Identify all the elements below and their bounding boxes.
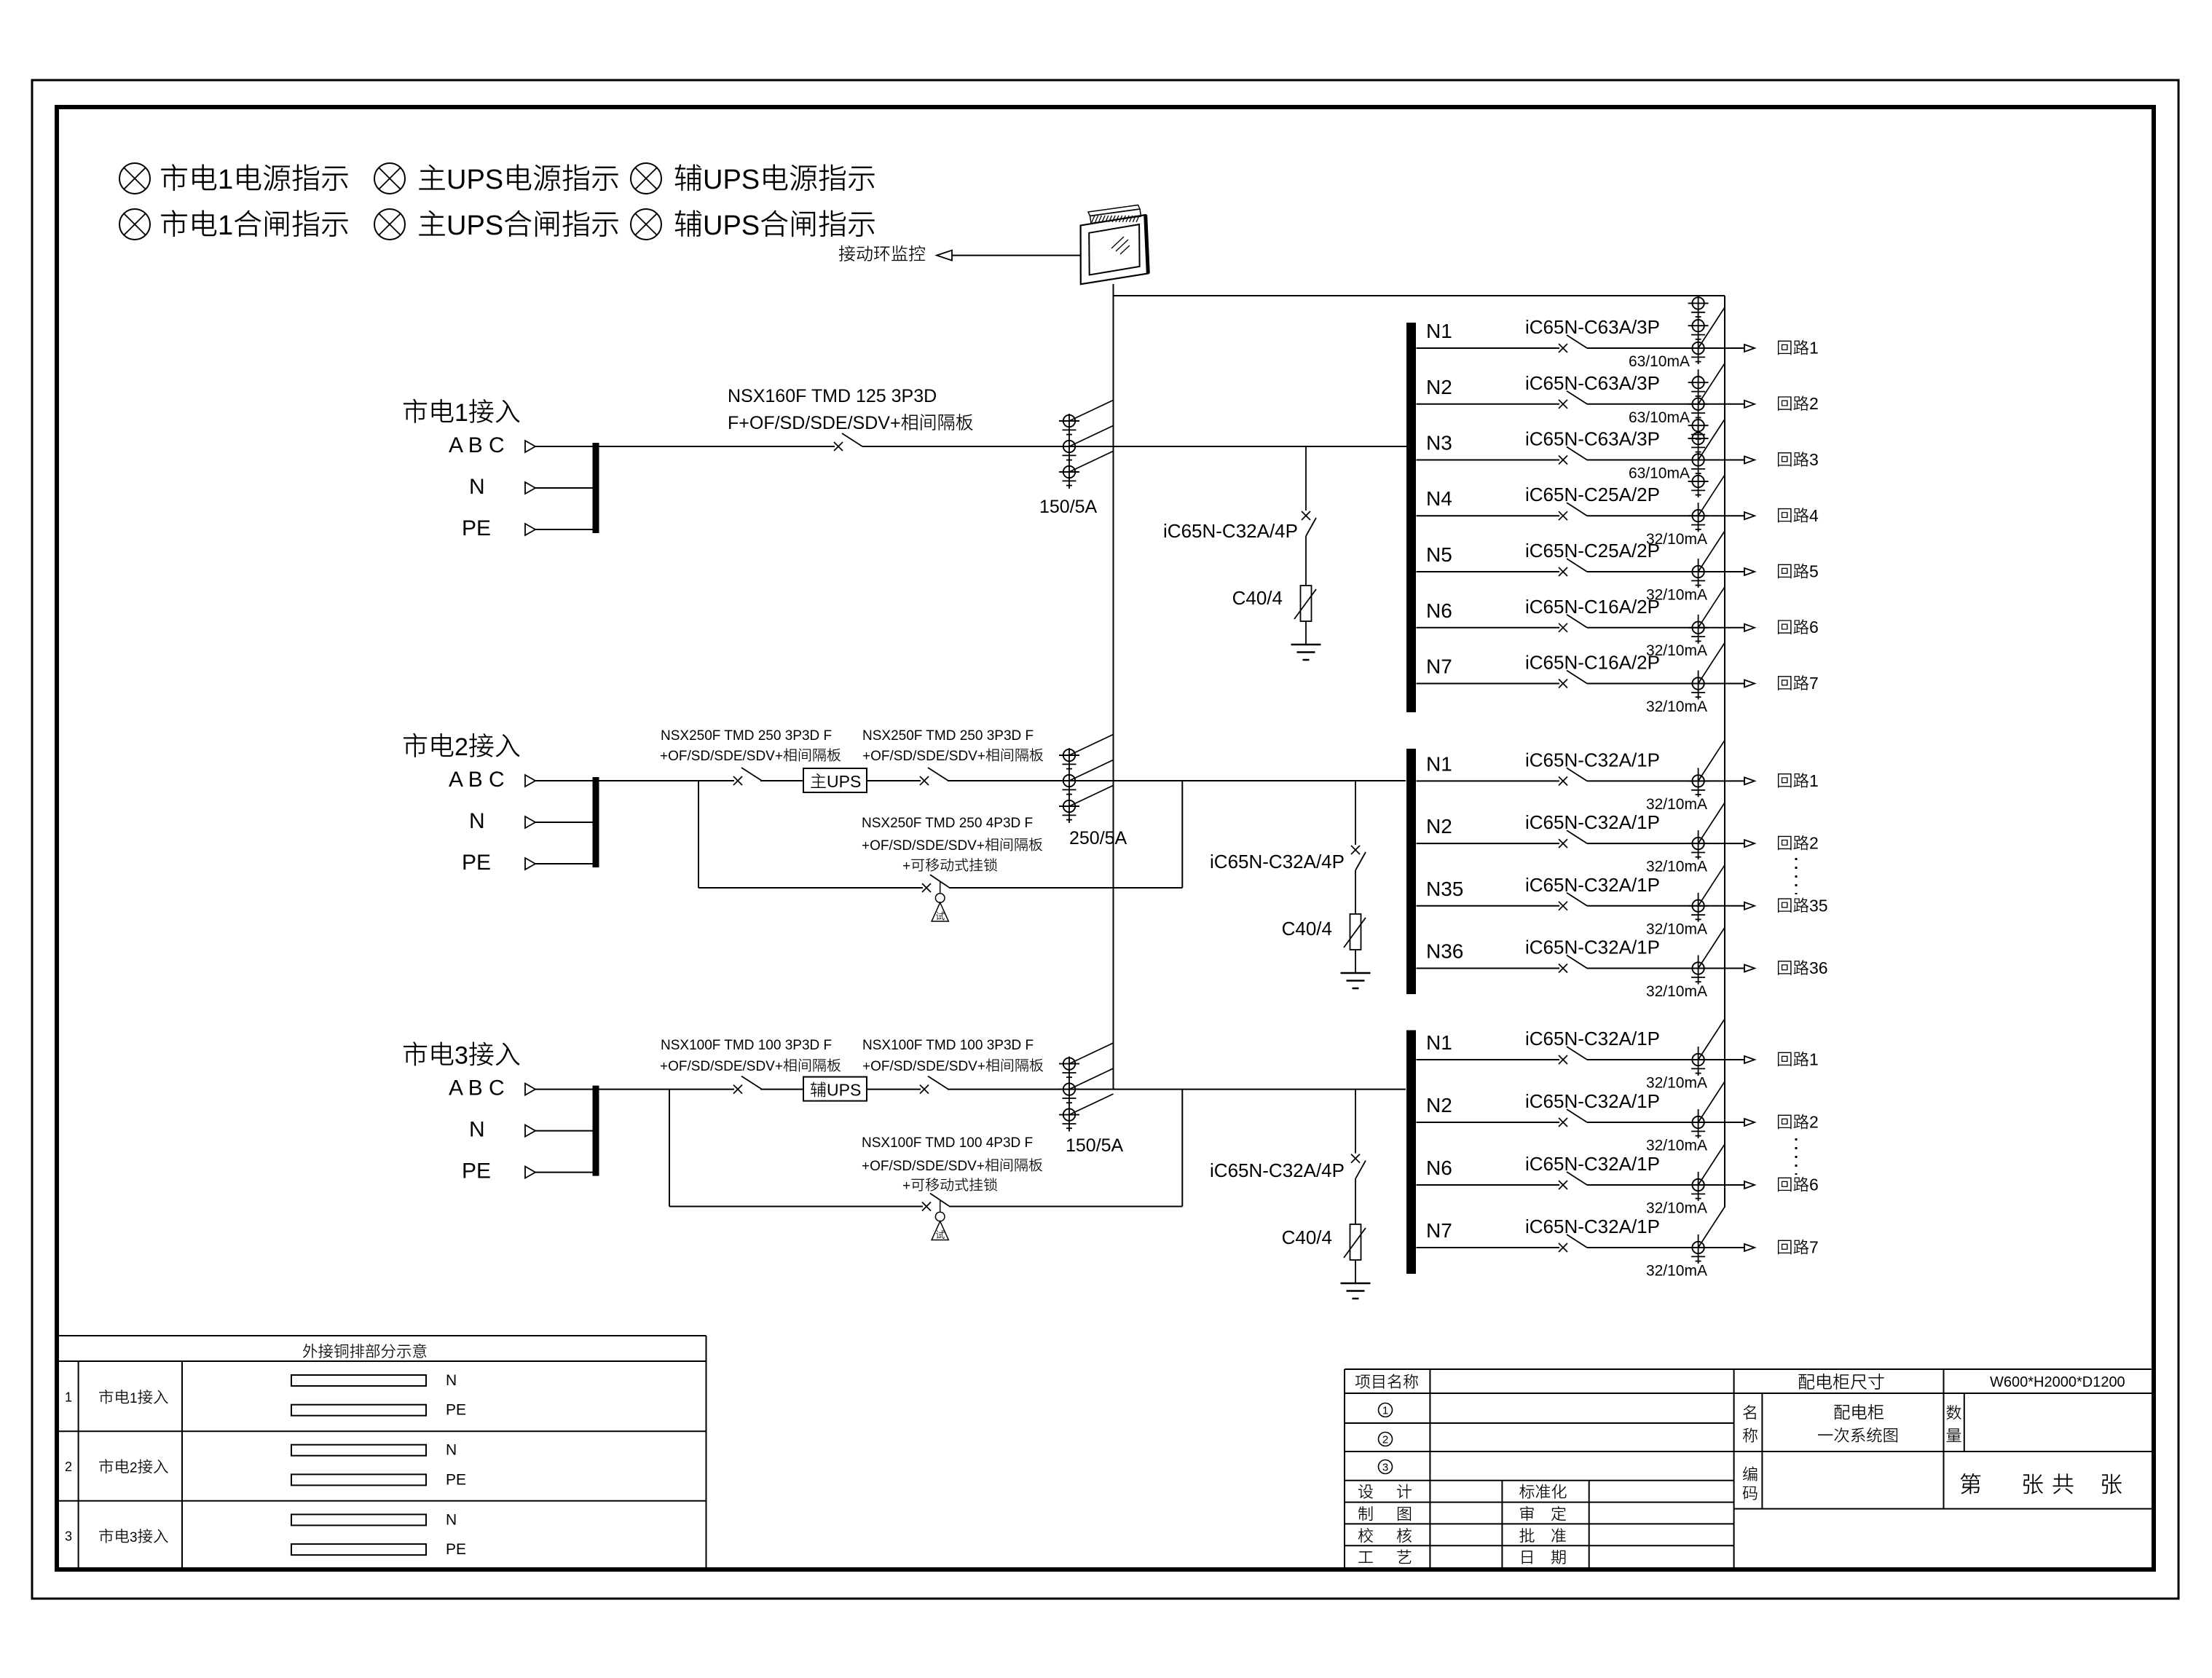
svg-text:3: 3 bbox=[65, 1529, 72, 1544]
label 审 定 bbox=[1520, 1506, 1566, 1521]
svg-text:6: 6 bbox=[1809, 618, 1819, 637]
wire bypass3 down from feeder bbox=[669, 1090, 670, 1207]
svg-text:PE: PE bbox=[462, 851, 491, 875]
breaker N35 iC65N-C32A/1P bbox=[1559, 893, 1587, 910]
svg-text:3: 3 bbox=[1809, 450, 1819, 469]
output arrow 回路35 bbox=[1744, 902, 1755, 910]
residual current transformer N2 bbox=[1688, 369, 1709, 441]
trip linkage diagonal N4 bbox=[1699, 475, 1725, 516]
breaker QF2a NSX250F bbox=[733, 768, 762, 785]
label iC65N-C32A/1P bbox=[1525, 749, 1660, 771]
label +OF/SD/SDE/SDV+相间隔板 (QF3a) bbox=[660, 1058, 841, 1074]
svg-text:N: N bbox=[469, 475, 485, 499]
svg-text:N: N bbox=[446, 1372, 457, 1389]
trip linkage diagonal N7 bbox=[1699, 1207, 1725, 1248]
label iC65N-C32A/1P bbox=[1525, 874, 1660, 896]
svg-text:iC65N-C32A/1P: iC65N-C32A/1P bbox=[1525, 937, 1660, 958]
label 制 图 bbox=[1358, 1506, 1411, 1521]
label 32/10mA bbox=[1646, 859, 1707, 875]
label NSX250F TMD 250 3P3D F (QF2a) bbox=[661, 728, 832, 744]
breaker QF3c bypass NSX100F 4P bbox=[922, 1194, 949, 1211]
svg-text:32/10mA: 32/10mA bbox=[1646, 859, 1707, 875]
label iC65N-C32A/1P bbox=[1525, 811, 1660, 833]
residual current transformer N1 bbox=[1688, 1047, 1709, 1076]
breaker QF2b NSX250F bbox=[920, 768, 948, 785]
label circled 3 bbox=[1379, 1460, 1393, 1474]
residual current transformer N6 bbox=[1688, 1172, 1709, 1201]
svg-text:iC65N-C32A/1P: iC65N-C32A/1P bbox=[1525, 1153, 1660, 1175]
input arrow PE bbox=[525, 524, 593, 535]
svg-text:A B C: A B C bbox=[449, 433, 505, 457]
residual current transformer N36 bbox=[1688, 956, 1709, 985]
node N5 bbox=[1426, 543, 1452, 566]
wire feeder2 to breaker QF2a bbox=[599, 780, 734, 781]
label 辅UPS电源指示 bbox=[675, 165, 875, 195]
breaker N5 iC65N-C25A/2P bbox=[1559, 559, 1587, 576]
wire N7 to output bbox=[1587, 1247, 1744, 1248]
svg-text:W600*H2000*D1200: W600*H2000*D1200 bbox=[1990, 1374, 2125, 1390]
svg-text:1: 1 bbox=[130, 1391, 138, 1406]
label 数量 vertical bbox=[1946, 1405, 1961, 1442]
svg-text:63/10mA: 63/10mA bbox=[1629, 409, 1690, 426]
trip linkage diagonal N1 bbox=[1699, 307, 1725, 348]
svg-text:+OF/SD/SDE/SDV+: +OF/SD/SDE/SDV+ bbox=[660, 749, 783, 764]
svg-text:+OF/SD/SDE/SDV+: +OF/SD/SDE/SDV+ bbox=[862, 838, 985, 854]
svg-text:PE: PE bbox=[446, 1541, 466, 1558]
svg-text:iC65N-C16A/2P: iC65N-C16A/2P bbox=[1525, 596, 1660, 618]
output arrow 回路7 bbox=[1744, 1244, 1755, 1251]
wire N1 to output bbox=[1587, 780, 1744, 781]
svg-text:1: 1 bbox=[454, 399, 468, 427]
wire to 辅UPS box bbox=[760, 1089, 803, 1090]
svg-text:PE: PE bbox=[446, 1471, 466, 1488]
svg-text:150/5A: 150/5A bbox=[1039, 497, 1098, 517]
wire bypass3 horizontal bbox=[669, 1206, 923, 1208]
svg-text:32/10mA: 32/10mA bbox=[1646, 1075, 1707, 1092]
breaker N36 iC65N-C32A/1P bbox=[1559, 956, 1587, 973]
monitor (touch screen) icon bbox=[1081, 205, 1149, 285]
svg-text:iC65N-C63A/3P: iC65N-C63A/3P bbox=[1525, 316, 1660, 338]
label +可移动式挂锁 (bypass) bbox=[902, 858, 997, 874]
copper bar N row 2 bbox=[291, 1442, 457, 1459]
output arrow 回路1 bbox=[1744, 777, 1755, 784]
surge breaker iC65N-C32A/4P bbox=[1351, 1090, 1366, 1224]
breaker N1 iC65N-C63A/3P bbox=[1559, 335, 1587, 352]
label 回路4 bbox=[1778, 506, 1819, 525]
residual current transformer N1 bbox=[1688, 296, 1709, 365]
table header 外接铜排部分示意 bbox=[303, 1344, 427, 1358]
label NSX100F TMD 100 3P3D F (QF3a) bbox=[661, 1038, 832, 1053]
wire bypass3 riser to feeder wire bbox=[1181, 1090, 1183, 1207]
svg-text:N: N bbox=[469, 1118, 485, 1142]
label 名称 vertical bbox=[1743, 1405, 1758, 1443]
label iC65N-C32A/1P bbox=[1525, 937, 1660, 958]
wire N6 to output bbox=[1587, 627, 1744, 629]
label 250/5A bbox=[1069, 828, 1127, 848]
wire bypass3 to riser bbox=[949, 1206, 1182, 1208]
label iC65N-C25A/2P bbox=[1525, 484, 1660, 505]
breaker N3 iC65N-C63A/3P bbox=[1559, 447, 1587, 465]
output arrow 回路5 bbox=[1744, 568, 1755, 575]
label 回路2 bbox=[1778, 394, 1819, 413]
label +OF/SD/SDE/SDV+相间隔板 (QF2a) bbox=[660, 748, 841, 764]
node N7 bbox=[1426, 1219, 1452, 1242]
svg-text:2: 2 bbox=[65, 1460, 72, 1474]
svg-text:N7: N7 bbox=[1426, 655, 1452, 678]
label N bbox=[469, 475, 485, 499]
node N6 bbox=[1426, 599, 1452, 622]
label W600*H2000*D1200 bbox=[1990, 1374, 2125, 1390]
label NSX160F TMD 125 3P3D bbox=[728, 386, 937, 406]
current transformer 150/5A bbox=[1059, 400, 1114, 489]
label 32/10mA bbox=[1646, 796, 1707, 813]
label +OF/SD/SDE/SDV+相间隔板 (QF2b) bbox=[862, 748, 1043, 764]
wire branch N3 from busbar bbox=[1417, 460, 1560, 461]
surge arrester varistor C40/4 bbox=[1294, 586, 1316, 645]
breaker QF2c bypass NSX250F 4P bbox=[922, 875, 949, 892]
svg-text:2: 2 bbox=[130, 1461, 138, 1476]
svg-text:N4: N4 bbox=[1426, 487, 1452, 510]
wire branch N5 from busbar bbox=[1417, 571, 1560, 572]
residual current transformer N5 bbox=[1688, 559, 1709, 588]
label 63/10mA bbox=[1629, 353, 1690, 370]
svg-text:N5: N5 bbox=[1426, 543, 1452, 566]
wire right collector bus bbox=[1724, 296, 1725, 1208]
svg-text:1: 1 bbox=[218, 210, 233, 241]
input arrow phase A B C bbox=[525, 441, 593, 452]
svg-text:UPS: UPS bbox=[827, 772, 861, 791]
breaker QF1 NSX160F bbox=[834, 433, 862, 451]
label 工 艺 bbox=[1358, 1550, 1411, 1564]
svg-text:UPS: UPS bbox=[446, 210, 503, 241]
wire branch N36 from busbar bbox=[1417, 968, 1560, 969]
wire top distribution line bbox=[1114, 295, 1725, 296]
wire to 主UPS box bbox=[760, 780, 803, 781]
svg-text:C40/4: C40/4 bbox=[1282, 1226, 1332, 1248]
svg-text:NSX100F TMD 100 3P3D F: NSX100F TMD 100 3P3D F bbox=[862, 1038, 1034, 1053]
wire bypass2 riser to feeder wire bbox=[1181, 781, 1183, 888]
breaker N7 iC65N-C16A/2P bbox=[1559, 671, 1587, 688]
output arrow 回路2 bbox=[1744, 401, 1755, 408]
input arrow N bbox=[525, 816, 593, 828]
label 63/10mA bbox=[1629, 409, 1690, 426]
label 编码 vertical bbox=[1743, 1466, 1758, 1500]
label 设 计 bbox=[1358, 1484, 1412, 1499]
label 主UPS合闸指示 bbox=[419, 210, 618, 241]
residual current transformer N2 bbox=[1688, 830, 1709, 859]
busbar group3 (aux UPS) bbox=[1406, 1031, 1416, 1275]
ground symbol bbox=[1341, 1283, 1371, 1299]
output arrow 回路4 bbox=[1744, 512, 1755, 519]
svg-text:UPS: UPS bbox=[703, 210, 760, 241]
indicator lamp HL1 bbox=[119, 163, 150, 194]
svg-text:N1: N1 bbox=[1426, 752, 1452, 775]
label 32/10mA bbox=[1646, 1138, 1707, 1154]
node N2 bbox=[1426, 376, 1452, 398]
wire bypass2 horizontal bbox=[698, 887, 923, 889]
svg-text:PE: PE bbox=[462, 516, 491, 540]
label 回路2 bbox=[1778, 834, 1819, 853]
label 回路1 bbox=[1778, 339, 1819, 358]
svg-text:2: 2 bbox=[454, 733, 468, 761]
label C40/4 bbox=[1282, 1226, 1332, 1248]
trip linkage diagonal N7 bbox=[1699, 643, 1725, 684]
residual current transformer N6 bbox=[1688, 615, 1709, 644]
svg-text:NSX160F TMD 125 3P3D: NSX160F TMD 125 3P3D bbox=[728, 386, 937, 406]
breaker N4 iC65N-C25A/2P bbox=[1559, 503, 1587, 520]
wire branch N6 from busbar bbox=[1417, 1184, 1560, 1186]
node N1 bbox=[1426, 752, 1452, 775]
label iC65N-C63A/3P bbox=[1525, 372, 1660, 394]
svg-text:32/10mA: 32/10mA bbox=[1646, 1263, 1707, 1280]
trip linkage diagonal N6 bbox=[1699, 587, 1725, 628]
indicator lamp HL2 bbox=[374, 163, 405, 194]
label 32/10mA bbox=[1646, 1200, 1707, 1217]
label A B C phases bbox=[449, 1076, 505, 1100]
svg-text:iC65N-C25A/2P: iC65N-C25A/2P bbox=[1525, 484, 1660, 505]
breaker QF3b NSX100F bbox=[920, 1076, 948, 1094]
trip linkage diagonal N1 bbox=[1699, 1019, 1725, 1060]
label circled 2 bbox=[1379, 1433, 1393, 1446]
copper bar PE row 1 bbox=[291, 1402, 466, 1419]
svg-text:iC65N-C32A/1P: iC65N-C32A/1P bbox=[1525, 749, 1660, 771]
wire branch N35 from busbar bbox=[1417, 905, 1560, 907]
node N6 bbox=[1426, 1157, 1452, 1179]
svg-text:NSX100F TMD 100 3P3D F: NSX100F TMD 100 3P3D F bbox=[661, 1038, 832, 1053]
svg-text:iC65N-C63A/3P: iC65N-C63A/3P bbox=[1525, 372, 1660, 394]
wire feeder3 to breaker QF3a bbox=[599, 1089, 734, 1090]
label PE bbox=[462, 851, 491, 875]
主UPS box bbox=[803, 768, 867, 792]
svg-text:2: 2 bbox=[1809, 394, 1819, 413]
surge arrester varistor C40/4 bbox=[1344, 914, 1366, 973]
table 外接铜排部分示意 frame bbox=[59, 1336, 706, 1567]
label 回路36 bbox=[1778, 958, 1828, 977]
copper bar N row 1 bbox=[291, 1372, 457, 1389]
label 市电1电源指示 bbox=[161, 164, 348, 195]
svg-text:7: 7 bbox=[1809, 674, 1819, 693]
svg-text:1: 1 bbox=[65, 1390, 72, 1405]
label 主UPS电源指示 bbox=[419, 165, 618, 195]
label iC65N-C63A/3P bbox=[1525, 428, 1660, 450]
label NSX100F TMD 100 3P3D F (QF3b) bbox=[862, 1038, 1034, 1053]
svg-text:1: 1 bbox=[1809, 1050, 1819, 1069]
label 63/10mA bbox=[1629, 465, 1690, 482]
svg-text:UPS: UPS bbox=[827, 1081, 861, 1100]
label 回路7 bbox=[1778, 674, 1819, 693]
svg-text:3: 3 bbox=[454, 1042, 468, 1070]
output arrow 回路6 bbox=[1744, 624, 1755, 631]
busbar group1 (market power 1) bbox=[1406, 323, 1416, 712]
input arrow PE bbox=[525, 1167, 593, 1178]
svg-text:F+OF/SD/SDE/SDV+: F+OF/SD/SDE/SDV+ bbox=[728, 413, 901, 433]
indicator lamp HL5 bbox=[374, 209, 405, 240]
svg-text:32/10mA: 32/10mA bbox=[1646, 921, 1707, 937]
residual current transformer N1 bbox=[1688, 768, 1709, 797]
svg-text:NSX250F TMD 250 4P3D F: NSX250F TMD 250 4P3D F bbox=[862, 816, 1033, 831]
svg-text:N1: N1 bbox=[1426, 1031, 1452, 1054]
svg-text:7: 7 bbox=[1809, 1238, 1819, 1257]
label +OF/SD/SDE/SDV+相间隔板 (bypass3) bbox=[862, 1158, 1042, 1174]
breaker QF3a NSX100F bbox=[733, 1076, 762, 1094]
trip linkage diagonal N2 bbox=[1699, 1082, 1725, 1122]
svg-text:iC65N-C32A/1P: iC65N-C32A/1P bbox=[1525, 1090, 1660, 1112]
residual current transformer N7 bbox=[1688, 671, 1709, 700]
node N35 bbox=[1426, 878, 1463, 900]
svg-text:1: 1 bbox=[218, 165, 233, 195]
svg-text:PE: PE bbox=[446, 1402, 466, 1419]
title block frame bbox=[1345, 1369, 2154, 1567]
feeder title 市电3接入 bbox=[404, 1041, 519, 1069]
label A B C phases bbox=[449, 433, 505, 457]
svg-text:N: N bbox=[446, 1442, 457, 1459]
trip linkage diagonal N6 bbox=[1699, 1144, 1725, 1185]
ground symbol bbox=[1341, 973, 1371, 988]
output arrow 回路36 bbox=[1744, 965, 1755, 972]
svg-text:32/10mA: 32/10mA bbox=[1646, 796, 1707, 813]
svg-text:2: 2 bbox=[1382, 1434, 1388, 1446]
trip linkage diagonal N36 bbox=[1699, 928, 1725, 969]
label 回路6 bbox=[1778, 1175, 1819, 1194]
svg-text:NSX250F TMD 250 3P3D F: NSX250F TMD 250 3P3D F bbox=[661, 728, 832, 744]
label 32/10mA bbox=[1646, 983, 1707, 1000]
svg-text:NSX100F TMD 100 4P3D F: NSX100F TMD 100 4P3D F bbox=[862, 1135, 1033, 1151]
output arrow 回路6 bbox=[1744, 1181, 1755, 1189]
svg-text:UPS: UPS bbox=[703, 165, 760, 195]
label iC65N-C16A/2P bbox=[1525, 652, 1660, 674]
label 日 期 bbox=[1522, 1550, 1566, 1564]
label iC65N-C32A/4P bbox=[1210, 1159, 1345, 1181]
svg-text:32/10mA: 32/10mA bbox=[1646, 1138, 1707, 1154]
svg-text:+OF/SD/SDE/SDV+: +OF/SD/SDE/SDV+ bbox=[862, 749, 985, 764]
svg-text:C40/4: C40/4 bbox=[1232, 587, 1283, 609]
breaker N7 iC65N-C32A/1P bbox=[1559, 1234, 1587, 1252]
wire branch N7 from busbar bbox=[1417, 683, 1560, 685]
svg-text:iC65N-C16A/2P: iC65N-C16A/2P bbox=[1525, 652, 1660, 674]
output arrow 回路1 bbox=[1744, 1056, 1755, 1063]
label iC65N-C32A/4P bbox=[1210, 851, 1345, 873]
svg-text:iC65N-C25A/2P: iC65N-C25A/2P bbox=[1525, 540, 1660, 562]
label 回路1 bbox=[1778, 1050, 1819, 1069]
wire N5 to output bbox=[1587, 571, 1744, 572]
辅UPS box bbox=[803, 1077, 867, 1101]
indicator lamp HL4 bbox=[119, 209, 150, 240]
wire bypass2 down from feeder bbox=[698, 781, 699, 888]
trip linkage diagonal N2 bbox=[1699, 363, 1725, 404]
wire N7 to output bbox=[1587, 683, 1744, 685]
svg-text:250/5A: 250/5A bbox=[1069, 828, 1127, 848]
svg-text:2: 2 bbox=[1809, 1113, 1819, 1132]
padlock (removable) bypass3 bbox=[932, 1200, 948, 1240]
label 32/10mA bbox=[1646, 921, 1707, 937]
svg-text:iC65N-C32A/4P: iC65N-C32A/4P bbox=[1210, 851, 1345, 873]
label 批 准 bbox=[1519, 1528, 1566, 1543]
label 接动环监控 bbox=[839, 245, 925, 261]
svg-text:150/5A: 150/5A bbox=[1066, 1135, 1124, 1156]
label iC65N-C25A/2P bbox=[1525, 540, 1660, 562]
label 32/10mA bbox=[1646, 587, 1707, 604]
wire branch N2 from busbar bbox=[1417, 1122, 1560, 1123]
svg-text:iC65N-C32A/1P: iC65N-C32A/1P bbox=[1525, 874, 1660, 896]
trip linkage diagonal N1 bbox=[1699, 740, 1725, 781]
svg-text:UPS: UPS bbox=[446, 165, 503, 195]
padlock (removable) bypass2 bbox=[932, 882, 948, 922]
label C40/4 bbox=[1282, 918, 1332, 940]
feeder title 市电2接入 bbox=[404, 733, 519, 761]
label 标准化 bbox=[1519, 1484, 1567, 1499]
node N1 bbox=[1426, 320, 1452, 342]
svg-text:1: 1 bbox=[1382, 1405, 1388, 1417]
wire N6 to output bbox=[1587, 1184, 1744, 1186]
ground symbol bbox=[1291, 645, 1321, 660]
output arrow 回路2 bbox=[1744, 840, 1755, 847]
svg-text:2: 2 bbox=[1809, 834, 1819, 853]
svg-text:N2: N2 bbox=[1426, 1094, 1452, 1116]
svg-text:+: + bbox=[902, 859, 910, 874]
label iC65N-C63A/3P bbox=[1525, 316, 1660, 338]
wire feeder1 to breaker bbox=[599, 446, 835, 447]
wire feeder1 breaker to busbar bbox=[862, 446, 1406, 447]
feeder terminal busbar bbox=[593, 777, 599, 867]
label 回路3 bbox=[1778, 450, 1819, 469]
svg-text:iC65N-C63A/3P: iC65N-C63A/3P bbox=[1525, 428, 1660, 450]
label 150/5A bbox=[1039, 497, 1098, 517]
label 回路7 bbox=[1778, 1238, 1819, 1257]
label 回路1 bbox=[1778, 771, 1819, 790]
label 一次系统图 bbox=[1818, 1427, 1897, 1443]
label NSX100F TMD 100 4P3D F (bypass3) bbox=[862, 1135, 1033, 1151]
wire feeder2 breaker to busbar bbox=[948, 780, 1406, 781]
svg-text:1: 1 bbox=[1809, 771, 1819, 790]
svg-text:63/10mA: 63/10mA bbox=[1629, 353, 1690, 370]
svg-text:NSX250F TMD 250 3P3D F: NSX250F TMD 250 3P3D F bbox=[862, 728, 1034, 744]
label iC65N-C32A/1P bbox=[1525, 1216, 1660, 1237]
node N36 bbox=[1426, 940, 1463, 963]
svg-text:+: + bbox=[902, 1178, 910, 1194]
svg-text:32/10mA: 32/10mA bbox=[1646, 983, 1707, 1000]
label circled 1 bbox=[1379, 1403, 1393, 1417]
label 150/5A bbox=[1066, 1135, 1124, 1156]
node N2 bbox=[1426, 815, 1452, 838]
table row 2 label bbox=[65, 1459, 168, 1476]
trip linkage diagonal N3 bbox=[1699, 419, 1725, 460]
input arrow phase A B C bbox=[525, 1084, 593, 1095]
label 校 核 bbox=[1358, 1528, 1412, 1543]
label 第 张 共 张 bbox=[1961, 1473, 2122, 1494]
svg-text:1: 1 bbox=[1809, 339, 1819, 358]
label 32/10mA bbox=[1646, 1075, 1707, 1092]
label 辅UPS合闸指示 bbox=[675, 210, 875, 241]
trip linkage diagonal N2 bbox=[1699, 803, 1725, 843]
svg-text:N1: N1 bbox=[1426, 320, 1452, 342]
input arrow PE bbox=[525, 858, 593, 870]
label 项目名称 bbox=[1355, 1374, 1418, 1389]
breaker N6 iC65N-C32A/1P bbox=[1559, 1172, 1587, 1189]
wire branch N7 from busbar bbox=[1417, 1247, 1560, 1248]
wire N2 to output bbox=[1587, 1122, 1744, 1123]
table row 3 label bbox=[65, 1529, 168, 1545]
svg-text:+OF/SD/SDE/SDV+: +OF/SD/SDE/SDV+ bbox=[660, 1059, 783, 1074]
busbar group2 (main UPS) bbox=[1406, 749, 1416, 994]
svg-text:N2: N2 bbox=[1426, 376, 1452, 398]
label N bbox=[469, 1118, 485, 1142]
copper bar N row 3 bbox=[291, 1511, 457, 1528]
wire N1 to output bbox=[1587, 1059, 1744, 1060]
breaker N1 iC65N-C32A/1P bbox=[1559, 1047, 1587, 1064]
current transformer 150/5A bbox=[1059, 1043, 1114, 1132]
label NSX250F TMD 250 4P3D F (bypass) bbox=[862, 816, 1033, 831]
feeder terminal busbar bbox=[593, 443, 599, 533]
